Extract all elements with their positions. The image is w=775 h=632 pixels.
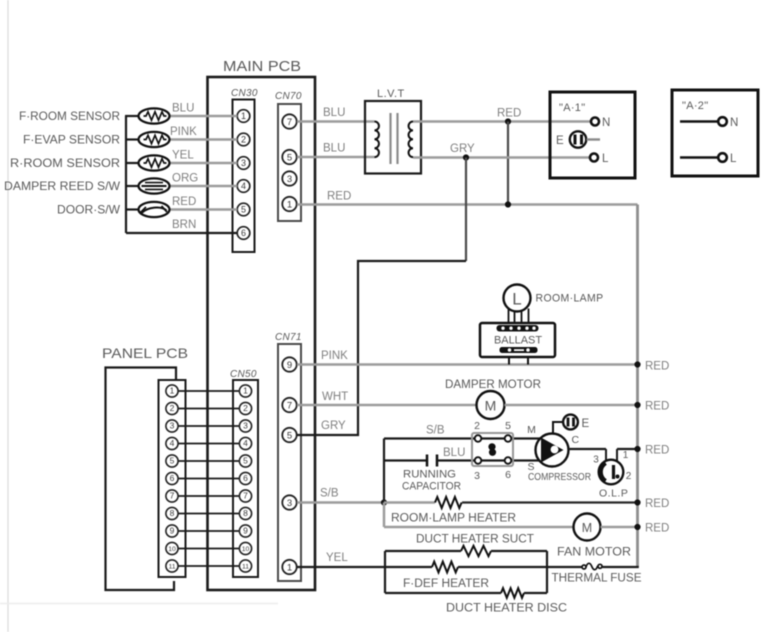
svg-text:GRY: GRY [321, 420, 346, 432]
start relay [472, 420, 513, 482]
svg-text:BLU: BLU [172, 103, 194, 115]
wire PINK CN71 pin9 to ballast / RED to bus [297, 363, 638, 366]
svg-text:5: 5 [170, 456, 175, 466]
wire room-lamp heater to bus [462, 501, 638, 503]
L.V.T primary winding [375, 122, 379, 158]
svg-text:1: 1 [241, 111, 246, 121]
svg-text:5: 5 [287, 431, 292, 442]
CN50 pin 10 [239, 542, 251, 554]
svg-text:BALLAST: BALLAST [494, 335, 542, 347]
svg-text:3: 3 [243, 421, 248, 431]
thermistor sensor symbol row 3 [139, 155, 170, 170]
wire: DOOR·S/W left lead [125, 208, 139, 210]
svg-text:YEL: YEL [326, 552, 348, 564]
svg-text:BLU: BLU [443, 447, 465, 459]
PANEL PCB board outline [102, 345, 188, 590]
wire: DAMPER REED S/W left lead [125, 185, 139, 187]
svg-text:CN70: CN70 [275, 91, 302, 102]
wire fan motor to bus [601, 526, 638, 529]
svg-text:1: 1 [623, 450, 629, 461]
svg-text:CN50: CN50 [230, 369, 257, 380]
panel connector pin 1 [166, 385, 178, 397]
svg-text:PINK: PINK [321, 350, 348, 362]
L.V.T core [389, 113, 391, 164]
CN70 pin 5 [282, 150, 296, 164]
wire BLU to CN30 pin 1 [170, 115, 238, 118]
svg-text:7: 7 [170, 491, 175, 501]
svg-text:RED: RED [645, 498, 669, 510]
wire damper motor to bus [505, 404, 638, 407]
svg-text:R·ROOM SENSOR: R·ROOM SENSOR [10, 156, 120, 170]
CN50 pin 7 [239, 490, 251, 502]
wire BRN (sensor common to CN30 pin 6) [126, 232, 237, 234]
svg-text:RED: RED [645, 445, 669, 457]
svg-text:DAMPER REED S/W: DAMPER REED S/W [4, 179, 121, 193]
wire bottom branch [385, 592, 501, 594]
CN50 pin 8 [239, 507, 251, 519]
wire mid branch to box right [458, 566, 547, 568]
svg-text:THERMAL FUSE: THERMAL FUSE [552, 573, 642, 585]
compressor motor [527, 424, 591, 483]
svg-text:8: 8 [243, 508, 248, 518]
svg-text:8: 8 [170, 508, 175, 518]
panel-to-CN50 wire pin 8 [178, 513, 240, 515]
node heater row to bus [634, 499, 640, 505]
svg-text:BLU: BLU [323, 107, 345, 119]
node RED junction at CN70 pin1 row [505, 201, 511, 207]
svg-text:5: 5 [243, 456, 248, 466]
CN50 pin 6 [239, 472, 251, 484]
wire RED to CN30 pin 5 [170, 208, 238, 211]
wire RED L.V.T secondary top to A-1 N [413, 120, 592, 123]
CN71 pin 3 [282, 495, 296, 509]
svg-text:C: C [572, 434, 580, 446]
svg-text:5: 5 [505, 420, 511, 432]
svg-text:N: N [730, 117, 738, 129]
CN30 pin 6 [237, 227, 250, 240]
panel connector (11-pin) [159, 380, 186, 577]
panel connector pin 4 [166, 437, 178, 449]
relay coil [488, 443, 495, 450]
connector CN71 [275, 332, 302, 581]
svg-text:1: 1 [287, 200, 292, 211]
wire S/B riser to relay branch [383, 439, 385, 503]
wire compressor C to O.L.P pin3 [569, 448, 607, 450]
svg-text:YEL: YEL [172, 150, 194, 162]
A-1 L terminal [590, 154, 598, 162]
wire YEL to CN30 pin 3 [170, 162, 238, 165]
svg-text:9: 9 [170, 526, 175, 536]
svg-text:6: 6 [241, 228, 246, 238]
svg-text:DOOR·S/W: DOOR·S/W [57, 203, 121, 217]
panel connector pin 11 [166, 560, 178, 572]
svg-text:E: E [556, 135, 564, 147]
panel-to-CN50 wire pin 6 [178, 478, 240, 480]
svg-text:WHT: WHT [322, 391, 348, 403]
wire S/B to relay pin2 and compressor M [384, 437, 540, 439]
CN71 pin 7 [282, 398, 296, 412]
svg-text:RED: RED [327, 191, 351, 203]
svg-text:F·EVAP SENSOR: F·EVAP SENSOR [23, 133, 120, 147]
wire: R·ROOM SENSOR left lead [125, 162, 139, 164]
CN50 pin 5 [239, 455, 251, 467]
connector CN30 [231, 88, 258, 252]
svg-text:COMPRESSOR: COMPRESSOR [528, 472, 591, 483]
svg-text:N: N [602, 117, 610, 129]
connector CN50 [230, 369, 258, 577]
CN71 pin 5 [282, 428, 296, 442]
svg-text:7: 7 [243, 491, 248, 501]
wire RED dropper [507, 122, 509, 205]
svg-text:6: 6 [243, 473, 248, 483]
node compressor row to bus [634, 446, 640, 452]
CN71 pin 9 [282, 357, 296, 371]
room lamp leads to ballast [509, 309, 529, 325]
svg-text:RED: RED [172, 196, 196, 208]
svg-text:DUCT HEATER SUCT: DUCT HEATER SUCT [416, 534, 534, 546]
defrost heater box right edge [546, 551, 548, 593]
svg-text:"A·1": "A·1" [559, 102, 585, 114]
panel-to-CN50 wire pin 4 [178, 443, 240, 445]
svg-text:10: 10 [242, 546, 250, 553]
panel connector pin 3 [166, 420, 178, 432]
CN50 pin 11 [239, 560, 251, 572]
CN30 pin 5 [237, 203, 250, 216]
svg-text:CAPACITOR: CAPACITOR [402, 481, 461, 493]
svg-text:O.L.P: O.L.P [599, 488, 628, 500]
svg-text:1: 1 [243, 386, 248, 396]
svg-text:3: 3 [241, 158, 246, 168]
panel connector pin 7 [166, 490, 178, 502]
wire room-lamp heater branch (left) [384, 501, 435, 504]
panel-to-CN50 wire pin 10 [178, 548, 240, 550]
wire ORG to CN30 pin 4 [170, 185, 238, 188]
wire top branch [385, 550, 461, 552]
outlet box A-2 [672, 90, 758, 176]
wire BLU CN70 pin5 to L.V.T primary bottom [297, 156, 375, 159]
panel connector pin 6 [166, 472, 178, 484]
panel-to-CN50 wire pin 3 [178, 425, 240, 427]
CN30 pin 4 [237, 180, 250, 193]
svg-text:5: 5 [241, 205, 246, 215]
svg-text:2: 2 [626, 471, 632, 482]
svg-text:L.V.T: L.V.T [377, 88, 405, 100]
earth plug symbol E [563, 415, 589, 430]
svg-text:6: 6 [505, 469, 511, 481]
CN30 pin 2 [237, 133, 250, 146]
node RED junction [505, 118, 511, 124]
resistor DUCT HEATER SUCT [461, 546, 491, 556]
scan edge artifact bottom [0, 603, 278, 605]
running capacitor C [402, 455, 461, 493]
thermistor sensor symbol row 2 [139, 132, 170, 147]
svg-text:PANEL PCB: PANEL PCB [102, 345, 188, 361]
svg-text:DAMPER MOTOR: DAMPER MOTOR [445, 377, 541, 391]
svg-text:3: 3 [593, 455, 599, 466]
svg-text:MAIN PCB: MAIN PCB [223, 58, 301, 75]
svg-text:BRN: BRN [172, 219, 196, 231]
svg-text:ORG: ORG [172, 173, 198, 185]
svg-text:6: 6 [170, 473, 175, 483]
thermistor sensor symbol row 1 [139, 108, 170, 123]
wire thermal fuse to bus [602, 566, 639, 568]
compressor earth lead [553, 422, 562, 433]
wire: F·EVAP SENSOR left lead [125, 138, 139, 140]
A-2 N terminal wire [680, 120, 718, 123]
CN50 pin 4 [239, 437, 251, 449]
MAIN PCB board outline [208, 58, 316, 590]
svg-text:3: 3 [474, 470, 480, 482]
damper reed switch symbol [139, 178, 170, 193]
CN50 pin 9 [239, 525, 251, 537]
wire O.L.P pin1 to bus [617, 448, 638, 450]
svg-text:BLU: BLU [323, 143, 345, 155]
wire RED CN70 pin1 to right bus [297, 203, 638, 206]
wire GRY step to CN71 pin5 [297, 261, 466, 435]
door switch symbol [139, 202, 170, 217]
sensor common bus (to BRN) [125, 116, 127, 233]
wire box to thermal fuse [547, 566, 582, 568]
svg-text:7: 7 [287, 117, 292, 128]
svg-text:E: E [582, 418, 590, 430]
svg-text:5: 5 [287, 153, 292, 164]
A-2 L terminal wire [680, 156, 718, 159]
svg-text:RED: RED [645, 523, 669, 535]
wire to fan motor [384, 526, 574, 529]
svg-text:CN30: CN30 [231, 88, 258, 99]
svg-text:3: 3 [287, 498, 292, 509]
CN30 pin 1 [237, 110, 250, 123]
defrost heater box left edge [384, 551, 386, 593]
svg-text:M: M [582, 521, 592, 535]
svg-text:3: 3 [287, 174, 292, 185]
panel connector pin 5 [166, 455, 178, 467]
CN70 pin 7 [282, 114, 296, 128]
CN50 pin 1 [239, 385, 251, 397]
svg-text:RED: RED [645, 401, 669, 413]
svg-text:RUNNING: RUNNING [403, 469, 456, 481]
svg-text:M: M [527, 424, 536, 436]
svg-text:CN71: CN71 [275, 332, 302, 343]
wire: F·ROOM SENSOR left lead [125, 115, 139, 117]
svg-text:2: 2 [243, 403, 248, 413]
svg-text:1: 1 [287, 563, 292, 574]
svg-text:DUCT HEATER DISC: DUCT HEATER DISC [446, 603, 567, 615]
svg-text:2: 2 [474, 420, 480, 432]
fan motor M [557, 514, 631, 559]
svg-text:RED: RED [645, 361, 669, 373]
svg-text:4: 4 [241, 181, 246, 191]
panel connector pin 2 [166, 402, 178, 414]
wire RED right bus vertical [636, 205, 639, 568]
panel-to-CN50 wire pin 2 [178, 408, 240, 410]
scan edge artifact left [7, 0, 9, 632]
svg-text:S/B: S/B [426, 425, 445, 437]
outlet box A-1 [550, 92, 635, 178]
panel-to-CN50 wire pin 5 [178, 460, 240, 462]
panel-to-CN50 wire pin 11 [178, 565, 240, 567]
svg-text:RED: RED [497, 108, 521, 120]
wire YEL CN71 pin1 to defrost heater box [297, 566, 432, 568]
svg-text:9: 9 [243, 526, 248, 536]
resistor DUCT HEATER DISC [501, 588, 524, 598]
svg-text:GRY: GRY [450, 143, 475, 155]
svg-text:FAN MOTOR: FAN MOTOR [557, 547, 631, 559]
CN70 pin 1 [282, 197, 296, 211]
wire GRY dropper [465, 158, 467, 262]
svg-text:L: L [512, 290, 521, 309]
thermal fuse [552, 563, 642, 584]
panel connector pin 9 [166, 525, 178, 537]
svg-text:11: 11 [168, 564, 175, 571]
wire BLU CN70 pin7 to L.V.T primary top [297, 120, 375, 123]
svg-text:7: 7 [287, 401, 292, 412]
wire PINK to CN30 pin 2 [170, 138, 238, 141]
svg-text:ROOM·LAMP HEATER: ROOM·LAMP HEATER [391, 513, 516, 525]
overload protector O.L.P [593, 450, 632, 500]
svg-text:S/B: S/B [320, 488, 339, 500]
panel-to-CN50 wire pin 1 [178, 390, 240, 392]
panel connector pin 10 [166, 542, 178, 554]
svg-text:4: 4 [170, 438, 175, 448]
svg-text:ROOM·LAMP: ROOM·LAMP [536, 293, 604, 305]
svg-text:M: M [485, 398, 497, 414]
panel-to-CN50 wire pin 7 [178, 495, 240, 497]
svg-text:1: 1 [170, 386, 175, 396]
ballast [480, 323, 555, 365]
node GRY junction [463, 154, 469, 160]
CN71 pin 1 [282, 560, 296, 574]
panel-to-CN50 wire pin 9 [178, 530, 240, 532]
svg-text:4: 4 [243, 438, 248, 448]
node S/B junction [381, 499, 387, 505]
node fan row to bus [634, 524, 640, 530]
A-1 N terminal [591, 118, 599, 126]
svg-text:L: L [602, 153, 609, 165]
svg-text:10: 10 [168, 546, 176, 553]
wire GRY L.V.T secondary bottom to A-1 L [413, 156, 591, 159]
svg-text:F·ROOM SENSOR: F·ROOM SENSOR [19, 109, 120, 123]
svg-text:2: 2 [170, 403, 175, 413]
node damper row to bus [634, 402, 640, 408]
room lamp L [504, 285, 604, 312]
node ballast row to bus [634, 361, 640, 367]
CN30 pin 3 [237, 157, 250, 170]
wire fan motor branch riser [383, 503, 386, 528]
svg-text:L: L [730, 153, 737, 165]
wire capacitor to relay pin3 and compressor S [437, 459, 539, 461]
wire capacitor branch [384, 459, 427, 461]
connector CN70 [275, 91, 302, 221]
wire S/B CN71 pin3 to junction [297, 501, 384, 504]
svg-text:"A·2": "A·2" [682, 100, 708, 112]
transformer L.V.T [365, 88, 421, 174]
svg-text:9: 9 [287, 360, 292, 371]
damper motor M [477, 391, 505, 419]
ballast output stubs [508, 357, 510, 365]
resistor ROOM-LAMP HEATER [435, 497, 462, 508]
wire WHT CN71 pin7 to damper motor [297, 404, 477, 407]
svg-text:11: 11 [242, 564, 249, 571]
panel connector pin 8 [166, 507, 178, 519]
CN50 pin 2 [239, 402, 251, 414]
CN50 pin 3 [239, 420, 251, 432]
resistor F-DEF HEATER [432, 562, 458, 573]
L.V.T secondary winding [409, 122, 413, 158]
svg-text:F·DEF HEATER: F·DEF HEATER [403, 578, 489, 590]
svg-text:PINK: PINK [170, 126, 197, 138]
svg-text:2: 2 [241, 135, 246, 145]
svg-text:3: 3 [170, 421, 175, 431]
CN70 pin 3 [282, 171, 296, 185]
